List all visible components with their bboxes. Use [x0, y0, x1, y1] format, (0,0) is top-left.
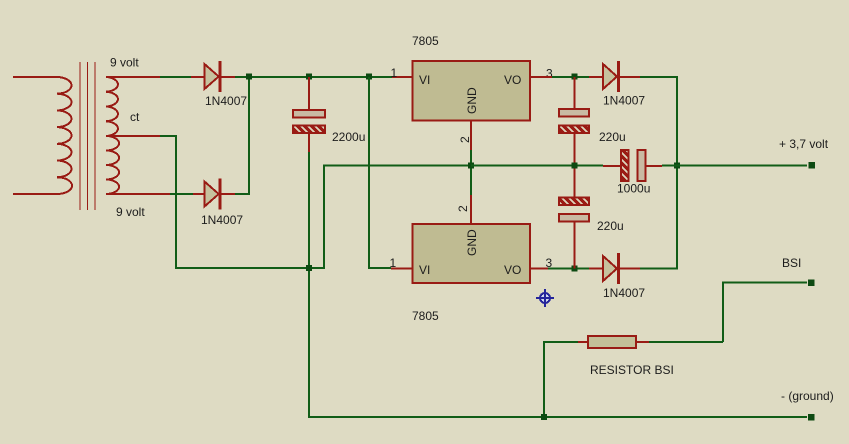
junction D1 output node — [246, 74, 252, 80]
terminal ground — [808, 414, 815, 421]
diode D3 anode pin wire — [589, 76, 603, 78]
svg-text:3: 3 — [546, 67, 553, 81]
diode D3 1N4007 top-right — [603, 61, 619, 92]
transformer TR1 secondary top pin wire — [106, 76, 160, 78]
svg-text:1N4007: 1N4007 — [603, 286, 645, 300]
svg-text:9 volt: 9 volt — [110, 56, 139, 70]
svg-text:7805: 7805 — [412, 309, 439, 323]
wire D3 output to right bus — [640, 77, 677, 269]
svg-text:1N4007: 1N4007 — [205, 94, 247, 108]
wire U1 GND pin to mid rail — [470, 150, 472, 166]
svg-text:VI: VI — [419, 263, 430, 277]
svg-text:ct: ct — [130, 110, 140, 124]
transformer TR1 core — [80, 62, 95, 210]
op-amp U2 7805 bottom regulator pin 1 wire — [391, 268, 412, 270]
op-amp U1 pin 3 wire — [530, 76, 552, 78]
resistor BSI right pin wire — [636, 341, 649, 343]
wire bottom secondary to D2 — [170, 193, 193, 195]
wire U2 VO to D4 — [548, 268, 589, 270]
wire resistor to BSI corner — [649, 341, 723, 343]
wire center tap net — [160, 136, 471, 268]
diode D2 cathode pin wire — [222, 193, 235, 195]
diode D2 anode pin wire — [193, 193, 205, 195]
op-amp U1 pin 2 wire — [470, 121, 472, 150]
diode D4 1N4007 bottom-right — [603, 253, 619, 284]
transformer TR1 secondary lower winding — [106, 136, 119, 194]
diode D1 cathode pin wire — [222, 76, 235, 78]
capacitor C4 1000u plates — [621, 150, 646, 181]
svg-text:+ 3,7 volt: + 3,7 volt — [779, 137, 829, 151]
svg-text:9 volt: 9 volt — [116, 205, 145, 219]
junction ground resistor node — [541, 414, 547, 420]
transformer TR1 secondary bottom pin wire — [106, 193, 170, 195]
svg-text:RESISTOR BSI: RESISTOR BSI — [590, 363, 674, 377]
svg-text:2: 2 — [458, 136, 472, 143]
capacitor C2 220u plates — [559, 109, 589, 133]
op-amp U1 7805 top regulator pin 1 wire — [392, 76, 412, 78]
diode D4 anode pin wire — [589, 268, 603, 270]
junction C2 C3 mid node — [572, 163, 578, 169]
capacitor C3 220u bottom pin wire — [574, 223, 576, 269]
origin marker — [536, 289, 554, 307]
wire rectified rail to U1 VI — [235, 76, 392, 78]
svg-text:GND: GND — [465, 87, 479, 114]
diode D1 anode pin wire — [191, 76, 205, 78]
svg-text:1N4007: 1N4007 — [603, 94, 645, 108]
wire 1000u to +3.7 terminal — [662, 165, 807, 167]
op-amp U2 7805 bottom regulator body — [413, 224, 531, 283]
svg-text:220u: 220u — [599, 130, 626, 144]
junction VI branch node — [366, 74, 372, 80]
transformer TR1 primary top lead wire — [13, 76, 57, 78]
wire U1 VO to D3 — [552, 76, 589, 78]
junction C2 top node — [572, 74, 578, 80]
svg-text:VI: VI — [419, 73, 430, 87]
transformer TR1 primary bottom lead wire — [13, 193, 57, 195]
capacitor C2 220u top pin wire — [574, 77, 576, 109]
capacitor C3 220u plates — [559, 198, 589, 222]
svg-text:VO: VO — [504, 73, 521, 87]
junction GND pins node — [468, 163, 474, 169]
terminal +3.7 volt — [809, 162, 816, 169]
svg-text:2: 2 — [456, 205, 470, 212]
resistor BSI left pin wire — [578, 341, 588, 343]
transformer TR1 center tap pin wire — [106, 135, 160, 137]
capacitor C1 2200u plates — [293, 110, 325, 133]
diode D4 cathode pin wire — [620, 268, 640, 270]
wire resistor left branch — [544, 342, 578, 417]
op-amp U1 7805 top regulator body — [413, 61, 531, 121]
capacitor C1 2200u bottom pin wire — [308, 134, 310, 152]
transformer TR1 secondary upper winding — [106, 77, 118, 136]
wire D2 output up to D1 output — [235, 77, 249, 194]
capacitor C4 1000u right pin wire — [646, 165, 663, 167]
svg-text:1000u: 1000u — [617, 182, 650, 196]
capacitor C3 220u top pin wire — [574, 166, 576, 198]
op-amp U2 pin 2 wire — [470, 195, 472, 223]
diode D1 1N4007 top-left — [205, 61, 221, 92]
svg-text:1N4007: 1N4007 — [201, 213, 243, 227]
diode D3 cathode pin wire — [620, 76, 640, 78]
svg-text:GND: GND — [465, 229, 479, 256]
wire top secondary to D1 — [160, 76, 191, 78]
svg-text:2200u: 2200u — [332, 130, 365, 144]
junction center-tap ground node — [306, 265, 312, 271]
junction 2200u top node — [306, 74, 312, 80]
svg-text:VO: VO — [504, 263, 521, 277]
junction right bus output node — [674, 163, 680, 169]
op-amp U2 pin 3 wire — [530, 268, 548, 270]
svg-text:- (ground): - (ground) — [781, 389, 834, 403]
wire U2 GND pin to mid rail — [470, 166, 472, 196]
wire 2200u bottom to ground line — [309, 152, 807, 417]
terminal BSI — [808, 280, 815, 287]
wire VI branch down to U2 VI — [369, 77, 391, 268]
capacitor C1 2200u top pin wire — [308, 77, 310, 109]
junction C3 bottom node — [572, 266, 578, 272]
transformer TR1 primary winding — [57, 77, 72, 194]
svg-text:7805: 7805 — [412, 34, 439, 48]
capacitor C2 220u bottom pin wire — [574, 134, 576, 166]
capacitor C4 1000u left pin wire — [603, 165, 621, 167]
wire BSI branch — [723, 283, 807, 343]
svg-text:220u: 220u — [597, 219, 624, 233]
svg-text:1: 1 — [391, 66, 398, 80]
wire mid rail junction to 1000u — [471, 165, 603, 167]
svg-text:BSI: BSI — [782, 256, 801, 270]
diode D2 1N4007 bottom-left — [205, 179, 221, 210]
svg-text:1: 1 — [390, 256, 397, 270]
resistor RESISTOR BSI body — [588, 336, 636, 348]
